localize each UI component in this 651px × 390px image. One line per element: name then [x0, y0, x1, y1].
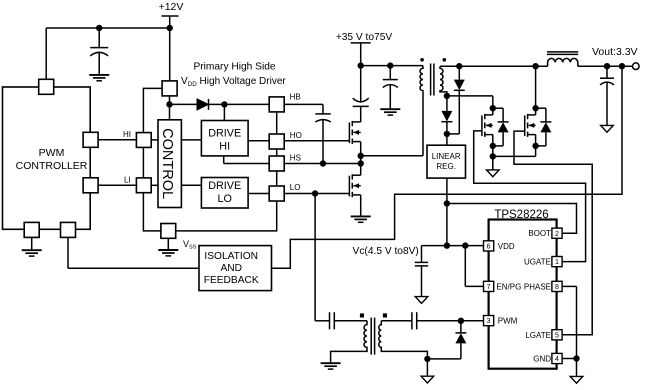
- node junction D1 cathode: [221, 101, 227, 107]
- node HS label: [290, 154, 301, 163]
- wire HI: [98, 139, 136, 141]
- pin box U2 HO: [269, 134, 284, 149]
- diode D1 bootstrap: [170, 99, 225, 110]
- wire GND pin to ground: [562, 359, 576, 377]
- node LO label: [290, 183, 301, 192]
- svg-text:LINEAR: LINEAR: [432, 152, 461, 161]
- U3 title TPS28226: [494, 209, 548, 221]
- ground under C1: [89, 75, 109, 81]
- ground triangle under Q3: [487, 170, 500, 177]
- svg-text:CONTROLLER: CONTROLLER: [16, 160, 88, 172]
- wire T2 secondary to C9: [381, 320, 412, 322]
- transformer T2 core: [371, 318, 374, 355]
- transformer T1 polarity dot secondary: [443, 58, 447, 62]
- node Vc label: [353, 246, 419, 257]
- svg-text:LO: LO: [217, 193, 231, 205]
- op-amp U3 TPS28226 box: [489, 220, 557, 369]
- wire source link Q3-Q4: [493, 146, 536, 157]
- ground triangle under TPS28226: [570, 376, 583, 383]
- svg-text:LO: LO: [290, 183, 301, 192]
- ground triangle under T2 secondary: [421, 376, 434, 383]
- node HI label: [123, 130, 131, 139]
- node junction Q3 source at D4: [490, 143, 496, 149]
- wire LINEAR REG output to VDD rail: [446, 178, 448, 246]
- op-amp U4 LINEAR REG block: [427, 145, 466, 178]
- svg-text:GND: GND: [533, 355, 551, 364]
- svg-text:REG.: REG.: [436, 162, 456, 171]
- pin label EN/PG: [496, 282, 521, 291]
- pin box U1 LI output: [83, 178, 98, 193]
- wire D1 cathode to DRIVE HI supply: [223, 104, 225, 120]
- svg-text:Primary High Side: Primary High Side: [193, 62, 275, 73]
- transistor Q4 catch FET: [525, 108, 536, 146]
- wire CONTROL to DRIVE LO: [181, 184, 201, 186]
- diode D2 secondary top rectifier: [447, 66, 465, 134]
- wire +12V to U2 VDD pin: [169, 28, 171, 81]
- transformer T2 polarity square secondary: [383, 313, 387, 317]
- diode D4 schottky across Q3: [493, 108, 509, 146]
- svg-text:HS: HS: [290, 154, 301, 163]
- svg-text:6: 6: [487, 244, 491, 251]
- wire LO net: [284, 193, 349, 195]
- node junction diode-OR output: [444, 131, 450, 137]
- node junction linear out / BOOT feed: [444, 200, 450, 206]
- op-amp U1 PWM CONTROLLER box: [3, 87, 91, 229]
- svg-text:VDD: VDD: [498, 242, 515, 251]
- pin box U3 pin 6 VDD: [484, 241, 494, 251]
- pin box U2 VSS: [161, 224, 176, 239]
- svg-text:VDD High Voltage Driver: VDD High Voltage Driver: [181, 76, 286, 88]
- pin box U2 HI input: [136, 133, 151, 148]
- wire D1 cathode to HB pin: [224, 103, 269, 105]
- ground under C4: [380, 109, 400, 115]
- svg-text:2: 2: [555, 231, 559, 238]
- inductor L1 output: [548, 58, 578, 66]
- capacitor C4 input ceramic: [383, 66, 398, 110]
- node junction VDD rail at EN/PG: [462, 242, 468, 248]
- pin box U2 LO: [269, 186, 284, 201]
- pin box U2 VDD: [162, 81, 177, 96]
- transistor Q3 sync rectifier FET: [482, 108, 493, 146]
- ground under U1 ground pin: [22, 237, 42, 256]
- transformer T1 polarity dot primary: [420, 58, 424, 62]
- wire Q4 drain from rail: [535, 66, 537, 108]
- pin label UGATE: [524, 258, 551, 267]
- node junction VDD/anode: [166, 101, 172, 107]
- transformer T2 secondary winding: [379, 321, 428, 359]
- node junction Q1 source / primary return: [358, 153, 364, 159]
- diode D5 schottky across Q4: [536, 108, 552, 146]
- inductor L1 core bars: [547, 52, 578, 55]
- ground under Q2 source: [351, 216, 371, 222]
- pin box U1 top (bias): [39, 79, 54, 94]
- wire BOOT feed: [447, 204, 577, 234]
- node junction secondary top at D2: [456, 63, 462, 69]
- pin label PHASE: [524, 282, 551, 291]
- node junction Q3 source to Q4 source link: [490, 153, 496, 159]
- pin box U2 LI input: [136, 178, 151, 193]
- node HO label: [290, 131, 302, 140]
- svg-text:FEEDBACK: FEEDBACK: [204, 275, 259, 286]
- node junction LO to gate transformer: [312, 190, 318, 196]
- svg-text:1: 1: [555, 259, 559, 266]
- pin box U1 bottom ground pin: [24, 222, 39, 237]
- svg-text:Vout:3.3V: Vout:3.3V: [592, 46, 638, 58]
- capacitor C5 output: [600, 66, 614, 125]
- wire PHASE to ground: [562, 286, 576, 358]
- node junction secondary top at Q4 drain: [532, 63, 538, 69]
- U2 DRIVE HI block: [201, 121, 248, 156]
- node VSS label: [183, 239, 197, 251]
- U1 label PWM CONTROLLER: [16, 147, 88, 172]
- wire HB to bootstrap cap: [284, 104, 323, 114]
- pin box U2 HB: [269, 97, 284, 112]
- svg-text:4: 4: [555, 356, 559, 363]
- wire VDD node to CONTROL block: [169, 104, 171, 119]
- wire UGATE net to Q3 gate: [474, 131, 586, 262]
- pin label PWM: [498, 317, 518, 326]
- pin box U3 pin 3 PWM: [484, 316, 494, 326]
- node junction output at C5: [604, 63, 610, 69]
- svg-text:8: 8: [555, 284, 559, 291]
- node junction +12V rail to VDD drop: [167, 25, 173, 31]
- wire HS net: [284, 163, 361, 165]
- node LI label: [124, 176, 131, 185]
- node junction PHASE/GND: [573, 355, 579, 361]
- node junction output at sense line: [619, 63, 625, 69]
- node junction T2 secondary return: [424, 356, 430, 362]
- transformer T1 primary winding: [420, 66, 423, 92]
- pin label GND: [533, 355, 551, 364]
- svg-text:+35 V to75V: +35 V to75V: [336, 32, 393, 43]
- transformer T1 core: [431, 64, 434, 96]
- svg-text:HB: HB: [290, 92, 301, 101]
- supply +12V label: [159, 1, 184, 13]
- svg-text:PHASE: PHASE: [524, 282, 551, 291]
- diode D6 PWM clamp: [427, 321, 466, 359]
- wire Q3 source to ground: [492, 146, 494, 170]
- wire +12V rail: [46, 27, 170, 29]
- pin box U2 HS: [269, 156, 284, 171]
- node HB label: [290, 92, 301, 101]
- node junction +35V rail left: [358, 62, 364, 68]
- capacitor C7 Vc bypass: [415, 246, 428, 297]
- wire LI: [98, 184, 136, 186]
- wire Q1 source node to HS node: [360, 156, 362, 164]
- svg-text:HI: HI: [123, 130, 131, 139]
- svg-text:Vc(4.5 V to8V): Vc(4.5 V to8V): [353, 246, 419, 257]
- capacitor C8 gate drive series: [330, 312, 368, 329]
- svg-text:BOOT: BOOT: [528, 229, 551, 238]
- pin box U3 pin 2 BOOT: [552, 228, 562, 238]
- capacitor C1 (12V bypass, polarized): [90, 28, 108, 75]
- transformer T1 secondary winding: [440, 66, 447, 96]
- wire T2 return to ground: [426, 359, 428, 376]
- svg-text:TPS28226: TPS28226: [494, 209, 548, 221]
- svg-text:LGATE: LGATE: [525, 331, 551, 340]
- wire DRIVE HI return to HS pin: [224, 156, 270, 164]
- svg-text:7: 7: [487, 284, 491, 291]
- svg-text:HO: HO: [290, 131, 302, 140]
- svg-text:CONTROL: CONTROL: [159, 128, 175, 199]
- transformer T2 polarity square primary: [360, 313, 364, 317]
- pin box U3 pin 5 LGATE: [552, 330, 562, 340]
- wire +35V rail: [361, 65, 423, 67]
- ground under VSS: [158, 238, 178, 256]
- wire DRIVE LO to LO pin: [248, 193, 269, 195]
- wire LGATE net to Q4 gate: [514, 131, 592, 335]
- svg-text:ISOLATION: ISOLATION: [204, 251, 258, 262]
- node junction C2 to HS net: [320, 160, 326, 166]
- transistor Q1 high-side FET: [349, 121, 360, 156]
- wire U2 LI input to CONTROL: [151, 184, 158, 186]
- U2 DRIVE LO block: [201, 178, 248, 209]
- pin box U1 bottom feedback pin: [61, 222, 76, 237]
- supply +12V bar symbol: [162, 16, 179, 28]
- pin box U3 pin 1 UGATE: [552, 257, 562, 267]
- svg-text:PWM: PWM: [498, 317, 518, 326]
- ground triangle under C7: [415, 297, 428, 304]
- wire secondary top rail: [440, 65, 632, 67]
- supply +35V to 75V label: [336, 32, 393, 43]
- wire Vout sense line: [272, 66, 623, 268]
- annotation Primary High Side VDD High Voltage Driver: [181, 62, 286, 88]
- svg-text:5: 5: [555, 332, 559, 339]
- node junction Q4 source at D5: [532, 143, 538, 149]
- svg-text:PWM: PWM: [39, 147, 65, 159]
- svg-text:UGATE: UGATE: [524, 258, 551, 267]
- supply +35V bar symbol: [351, 43, 371, 66]
- svg-text:HI: HI: [219, 141, 230, 153]
- wire EN/PG to VDD rail: [465, 246, 483, 287]
- node Vout label: [592, 46, 638, 58]
- svg-text:3: 3: [487, 318, 491, 325]
- transistor Q2 low-side FET: [349, 164, 360, 217]
- pin box U3 pin 4 GND: [552, 353, 562, 363]
- wire HO to Q1 gate: [284, 140, 349, 142]
- op-amp U2 driver outline: [143, 88, 276, 231]
- node junction +35V rail at C4: [387, 62, 393, 68]
- node junction Q4 drain: [532, 105, 538, 111]
- wire LO node to gate transformer cap: [315, 194, 329, 321]
- wire CONTROL to DRIVE HI: [181, 139, 201, 141]
- wire VDD rail: [422, 245, 484, 247]
- pin label VDD: [498, 242, 515, 251]
- pin box U1 HI output: [83, 132, 98, 147]
- wire U1 feedback pin to isolation block: [68, 237, 199, 268]
- ground under T2 primary: [321, 363, 341, 369]
- wire U2 HI input to CONTROL: [151, 139, 158, 141]
- pin label BOOT: [528, 229, 551, 238]
- ground triangle under C5: [601, 125, 614, 132]
- wire DRIVE HI to HO pin: [248, 140, 269, 142]
- capacitor C9 PWM coupling: [412, 312, 484, 329]
- op-amp U5 ISOLATION AND FEEDBACK block: [199, 246, 272, 291]
- svg-text:LI: LI: [124, 176, 131, 185]
- wire +12V rail to PWM controller top pin: [45, 28, 47, 79]
- pin box U3 pin 7 EN/PG: [484, 281, 494, 291]
- node junction VDD rail at linear out: [444, 242, 450, 248]
- node junction T1 secondary bottom: [444, 93, 450, 99]
- svg-text:AND: AND: [220, 263, 242, 274]
- svg-text:+12V: +12V: [159, 1, 184, 13]
- wire primary return: [361, 92, 423, 156]
- capacitor C3 input bulk (polarized): [353, 66, 369, 122]
- capacitor C2 bootstrap (HB-HS): [315, 114, 330, 164]
- pin label LGATE: [525, 331, 551, 340]
- node junction PWM input at D6: [458, 318, 464, 324]
- U2 CONTROL block: [158, 120, 181, 208]
- diode D3 secondary bottom rectifier: [441, 96, 452, 145]
- transformer T2 primary winding: [331, 321, 367, 363]
- node junction Q3 drain: [490, 105, 496, 111]
- svg-text:DRIVE: DRIVE: [208, 180, 241, 192]
- node junction HS at Q1 source: [358, 160, 364, 166]
- node output terminal circle: [633, 63, 640, 70]
- svg-text:EN/PG: EN/PG: [496, 282, 521, 291]
- svg-text:DRIVE: DRIVE: [208, 128, 241, 140]
- wire secondary bottom to Q3 drain: [447, 96, 493, 108]
- pin box U3 pin 8 PHASE: [552, 281, 562, 291]
- node junction on +12V rail at C1: [96, 25, 102, 31]
- wire U2 VDD to bootstrap diode: [169, 96, 171, 105]
